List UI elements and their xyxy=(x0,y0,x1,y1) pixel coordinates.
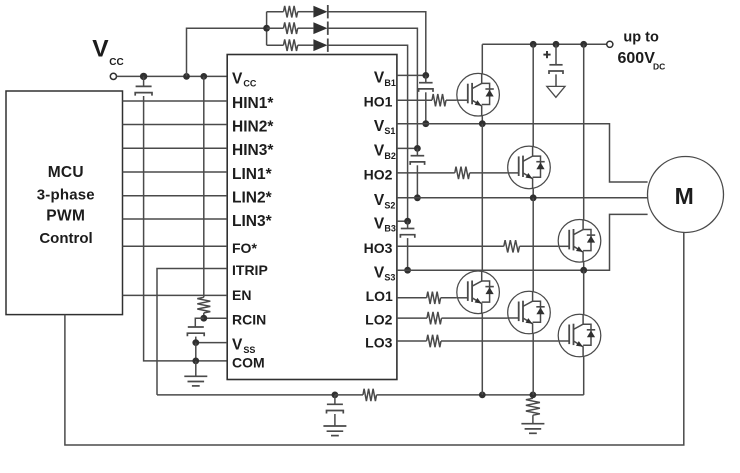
junction rail / shunt xyxy=(530,392,537,399)
pin label EN xyxy=(232,287,251,303)
svg-text:HIN2*: HIN2* xyxy=(232,118,274,135)
wire CB2 to VS2 xyxy=(416,165,418,198)
svg-text:LIN2*: LIN2* xyxy=(232,190,273,207)
resistor RG3 (HO3 gate) xyxy=(504,240,520,252)
svg-text:S2: S2 xyxy=(384,200,395,210)
wire bootstrap feed xyxy=(187,12,267,77)
diode DB2 (bootstrap) xyxy=(313,22,327,35)
svg-text:LIN3*: LIN3* xyxy=(232,213,273,230)
transistor Q6 (low-side IGBT phase 3) xyxy=(558,314,601,357)
wire DC+ bus xyxy=(482,43,606,45)
wire RG5 to Q5 gate xyxy=(442,317,508,319)
svg-text:600V: 600V xyxy=(618,50,656,67)
svg-text:V: V xyxy=(232,337,243,354)
junction VB3 xyxy=(404,218,411,225)
transistor Q2 (high-side IGBT phase 2) xyxy=(508,146,551,189)
wire MCU to LIN3 xyxy=(123,218,228,220)
wire LO1 pin xyxy=(397,297,427,299)
wire HO1 pin xyxy=(397,99,432,101)
pin label VB2 xyxy=(374,143,396,161)
pin label HIN1* xyxy=(232,95,274,112)
pin label LO1 xyxy=(366,288,393,304)
wire MCU to HIN3 xyxy=(123,147,228,149)
capacitor CB1 (bootstrap 1) xyxy=(419,75,433,92)
wire Q2 emitter to VS2 xyxy=(532,189,534,198)
wire Q6 emitter to rail xyxy=(583,357,585,395)
junction VB1 xyxy=(422,72,429,79)
junction VCC / C1 xyxy=(140,73,147,80)
wire MCU to LIN2 xyxy=(123,195,228,197)
wire phase1 collector xyxy=(481,44,483,73)
resistor R-RCIN pull-up xyxy=(197,297,210,313)
svg-text:B1: B1 xyxy=(384,78,396,88)
wire CB1 to VS1 xyxy=(425,92,427,123)
wire VS1 to motor xyxy=(397,124,648,182)
pin label VS3 xyxy=(374,265,396,283)
wire HO2 pin xyxy=(397,172,455,174)
junction VS2 phase node xyxy=(530,194,537,201)
svg-text:FO*: FO* xyxy=(232,240,257,256)
pin label VSS xyxy=(232,337,255,355)
wire RCIN to C-RCIN xyxy=(195,318,204,327)
wire ITRIP rail left xyxy=(157,394,335,396)
wire MCU to EN xyxy=(123,294,228,296)
svg-text:V: V xyxy=(374,216,385,233)
svg-text:up to: up to xyxy=(623,29,659,45)
wire LO2 pin xyxy=(397,317,427,319)
junction VB2 xyxy=(414,145,421,152)
wire DB3 to VB3 vertical xyxy=(328,45,407,221)
wire VB2 pin xyxy=(397,147,418,149)
ground GND2 (ITRIP filter) xyxy=(323,426,346,436)
svg-text:PWM: PWM xyxy=(46,207,85,224)
wire DB1 to VB1 vertical xyxy=(328,12,425,76)
transistor Q1 (high-side IGBT phase 1) xyxy=(457,73,500,116)
wire rail to RS xyxy=(335,394,363,396)
svg-text:Control: Control xyxy=(39,230,92,247)
wire VS2 to motor xyxy=(397,197,648,199)
svg-text:M: M xyxy=(675,183,694,209)
pin label COM xyxy=(232,354,265,370)
wire RB3 to DB3 xyxy=(298,44,314,46)
svg-text:ITRIP: ITRIP xyxy=(232,262,268,278)
wire C-RCIN to VSS xyxy=(196,337,227,343)
wire LO3 pin xyxy=(397,340,427,342)
resistor RG5 (LO2 gate) xyxy=(427,312,442,324)
svg-text:V: V xyxy=(374,265,385,282)
wire C1 to COM rail xyxy=(144,96,228,361)
junction bootstrap feed xyxy=(263,25,270,32)
junction rail / Q4 emitter xyxy=(479,392,486,399)
svg-text:S3: S3 xyxy=(384,273,395,283)
svg-text:HO2: HO2 xyxy=(364,166,393,182)
junction CB2 / VS2 xyxy=(414,194,421,201)
wire COM to ground xyxy=(195,361,197,376)
resistor RS (ITRIP series) xyxy=(363,389,377,401)
junction RCIN xyxy=(200,315,207,322)
pin label HO3 xyxy=(364,240,393,256)
capacitor CB3 (bootstrap 3) xyxy=(400,221,414,238)
wire VSS to COM xyxy=(195,343,197,361)
wire phase3 collector xyxy=(583,44,585,219)
wire shunt to ground xyxy=(532,415,534,424)
wire RG3 to Q3 gate xyxy=(520,245,559,247)
capacitor C-bus xyxy=(549,44,563,74)
wire VS1 to Q4 collector xyxy=(481,124,483,271)
pin label HIN2* xyxy=(232,118,274,135)
power label VCC xyxy=(92,35,123,68)
capacitor CB2 (bootstrap 2) xyxy=(410,148,424,165)
pin label VB1 xyxy=(374,70,396,88)
terminal DC+ input xyxy=(607,41,613,47)
svg-text:HO3: HO3 xyxy=(364,240,393,256)
resistor RG6 (LO3 gate) xyxy=(427,335,441,347)
pin label LIN2* xyxy=(232,190,273,207)
op-amp U1 gate-driver IC box xyxy=(227,55,397,380)
wire motor return loop xyxy=(65,233,684,446)
wire R-RCIN to RCIN pin xyxy=(204,313,227,318)
pin label HIN3* xyxy=(232,142,274,159)
wire CB3 to VS3 xyxy=(407,238,409,270)
svg-text:SS: SS xyxy=(243,345,255,355)
resistor RG2 (HO2 gate) xyxy=(455,167,470,179)
junction bus / Q3 collector xyxy=(580,41,587,48)
resistor RB2 xyxy=(284,22,298,34)
junction VCC / bootstrap feed xyxy=(183,73,190,80)
transistor Q3 (high-side IGBT phase 3) xyxy=(558,220,601,263)
wire RG4 to Q4 gate xyxy=(441,297,457,299)
svg-text:DC: DC xyxy=(653,62,665,72)
pin label LO3 xyxy=(365,335,392,351)
junction ITRIP filter xyxy=(332,392,339,399)
wire HO3 pin xyxy=(397,245,504,247)
wire MCU to LIN1 xyxy=(123,171,228,173)
wire RB2 to DB2 xyxy=(298,27,314,29)
svg-text:B3: B3 xyxy=(384,224,396,234)
svg-text:LO1: LO1 xyxy=(366,288,393,304)
pin label LIN3* xyxy=(232,213,273,230)
wire bootstrap branch 3 left xyxy=(267,44,284,46)
wire RB1 to DB1 xyxy=(298,11,314,13)
pin label HO2 xyxy=(364,166,393,182)
pin label VB3 xyxy=(374,216,396,234)
wire bootstrap branch 1 left xyxy=(267,11,284,13)
diode DB3 (bootstrap) xyxy=(313,39,327,52)
wire emitter rail xyxy=(377,394,584,396)
svg-text:HO1: HO1 xyxy=(364,94,393,110)
svg-text:HIN1*: HIN1* xyxy=(232,95,274,112)
capacitor C-RCIN xyxy=(187,327,204,336)
diode DB1 (bootstrap) xyxy=(313,5,327,18)
pin label LO2 xyxy=(365,312,392,328)
wire MCU to FO xyxy=(123,245,228,247)
wire VS3 to motor xyxy=(397,214,648,270)
wire Q3 emitter to VS3 xyxy=(583,262,585,270)
pin label FO* xyxy=(232,240,257,256)
wire Q5 emitter to rail xyxy=(532,334,534,395)
wire RG6 to Q6 gate xyxy=(441,340,558,342)
wire VS3 to Q6 collector xyxy=(583,270,585,314)
wire VB1 pin xyxy=(397,74,426,76)
wire RG1 to Q1 gate xyxy=(446,99,457,101)
svg-text:V: V xyxy=(92,35,109,62)
svg-text:S1: S1 xyxy=(384,126,395,136)
wire C-ITRIP to ground xyxy=(334,414,336,426)
pin label LIN1* xyxy=(232,166,273,183)
resistor R-shunt xyxy=(526,398,540,415)
wire VCC rail xyxy=(117,75,228,77)
svg-text:HIN3*: HIN3* xyxy=(232,142,274,159)
svg-text:COM: COM xyxy=(232,354,265,370)
motor M xyxy=(648,157,724,233)
svg-text:B2: B2 xyxy=(384,151,396,161)
junction VS1 phase node xyxy=(479,120,486,127)
wire RCIN pull-up top xyxy=(203,76,205,297)
wire VS2 to Q5 collector xyxy=(532,198,534,291)
junction bus / Q2 collector xyxy=(530,41,537,48)
svg-text:V: V xyxy=(374,143,385,160)
wire VB3 pin xyxy=(397,220,408,222)
wire MCU to HIN2 xyxy=(123,124,228,126)
resistor RG4 (LO1 gate) xyxy=(427,292,441,304)
junction VSS xyxy=(192,339,199,346)
wire Q4 emitter to rail xyxy=(481,314,483,395)
ground DC- arrow xyxy=(547,86,565,97)
resistor RG1 (HO1 gate) xyxy=(432,94,446,106)
capacitor C1 (VCC decoupling) xyxy=(135,76,152,95)
svg-text:MCU: MCU xyxy=(48,164,84,181)
svg-text:EN: EN xyxy=(232,287,251,303)
svg-text:CC: CC xyxy=(243,79,256,89)
wire C-bus to DC- xyxy=(555,74,557,86)
svg-text:LO3: LO3 xyxy=(365,335,392,351)
terminal VCC input xyxy=(110,73,116,79)
pin label VS2 xyxy=(374,192,396,210)
MCU block xyxy=(6,91,123,315)
pin label HO1 xyxy=(364,94,393,110)
wire DB2 to VB2 vertical xyxy=(328,28,417,148)
junction bus / C-bus xyxy=(553,41,560,48)
resistor RB3 xyxy=(284,39,298,51)
wire bootstrap branch 2 left xyxy=(267,27,284,29)
wire MCU to HIN1 xyxy=(123,100,228,102)
junction VCC / RCIN pull-up xyxy=(200,73,207,80)
svg-text:LO2: LO2 xyxy=(365,312,392,328)
junction COM xyxy=(192,358,199,365)
svg-text:V: V xyxy=(374,70,385,87)
wire RG2 to Q2 gate xyxy=(470,172,508,174)
label up to 600VDC xyxy=(618,29,666,71)
svg-text:LIN1*: LIN1* xyxy=(232,166,273,183)
transistor Q5 (low-side IGBT phase 2) xyxy=(508,291,551,334)
junction CB3 / VS3 xyxy=(404,267,411,274)
wire phase2 collector xyxy=(532,44,534,146)
wire Q1 emitter to VS1 xyxy=(481,116,483,124)
ground GND1 (COM) xyxy=(184,376,207,386)
label + (bus polarity) xyxy=(543,51,550,58)
svg-text:V: V xyxy=(232,70,243,87)
junction VS3 phase node xyxy=(580,267,587,274)
svg-text:CC: CC xyxy=(109,57,123,68)
ground GND3 (shunt) xyxy=(521,424,544,434)
capacitor C-ITRIP filter xyxy=(327,395,344,414)
svg-text:3-phase: 3-phase xyxy=(37,186,95,203)
wire ITRIP xyxy=(157,269,227,395)
svg-text:RCIN: RCIN xyxy=(232,312,266,328)
pin label VS1 xyxy=(374,118,396,136)
junction CB1 / VS1 xyxy=(422,120,429,127)
pin label VCC xyxy=(232,70,257,88)
transistor Q4 (low-side IGBT phase 1) xyxy=(457,271,500,314)
svg-text:V: V xyxy=(374,118,385,135)
svg-text:V: V xyxy=(374,192,385,209)
pin label ITRIP xyxy=(232,262,268,278)
pin label RCIN xyxy=(232,312,266,328)
resistor RB1 xyxy=(284,6,298,18)
